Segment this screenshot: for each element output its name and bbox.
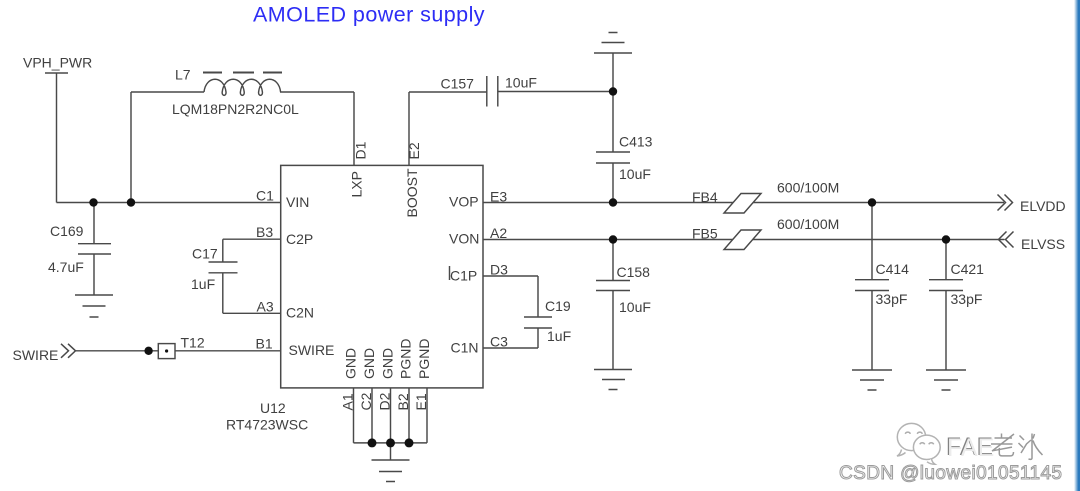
svg-text:C3: C3 [490, 334, 508, 350]
svg-text:C17: C17 [192, 246, 218, 262]
svg-text:33pF: 33pF [951, 291, 983, 307]
svg-text:VOP: VOP [449, 194, 479, 210]
svg-text:AMOLED power supply: AMOLED power supply [253, 3, 485, 27]
svg-text:D2: D2 [377, 392, 393, 410]
svg-text:C1P: C1P [450, 268, 477, 284]
svg-text:C414: C414 [876, 261, 910, 277]
svg-text:C19: C19 [545, 298, 571, 314]
svg-text:E3: E3 [490, 189, 507, 205]
svg-text:C158: C158 [617, 264, 651, 280]
svg-text:FB4: FB4 [692, 189, 718, 205]
svg-text:10uF: 10uF [619, 299, 651, 315]
svg-text:C421: C421 [951, 261, 985, 277]
svg-text:GND: GND [380, 348, 396, 379]
svg-text:U12: U12 [260, 400, 286, 416]
svg-text:SWIRE: SWIRE [289, 342, 335, 358]
svg-text:D1: D1 [353, 141, 369, 159]
svg-text:PGND: PGND [416, 339, 432, 379]
svg-text:B2: B2 [395, 393, 411, 410]
svg-text:PGND: PGND [398, 339, 414, 379]
svg-text:LXP: LXP [349, 171, 365, 197]
svg-text:600/100M: 600/100M [777, 216, 839, 232]
svg-text:GND: GND [361, 348, 377, 379]
svg-text:VIN: VIN [286, 194, 309, 210]
svg-text:A3: A3 [257, 299, 274, 315]
svg-text:C413: C413 [619, 134, 653, 150]
svg-text:T12: T12 [181, 335, 205, 351]
svg-text:10uF: 10uF [619, 166, 651, 182]
svg-text:E1: E1 [413, 393, 429, 410]
svg-text:C2N: C2N [286, 305, 314, 321]
svg-text:D3: D3 [490, 262, 508, 278]
svg-text:SWIRE: SWIRE [13, 347, 59, 363]
svg-text:A1: A1 [340, 393, 356, 410]
svg-text:C2: C2 [358, 392, 374, 410]
svg-text:RT4723WSC: RT4723WSC [226, 417, 308, 433]
svg-text:FB5: FB5 [692, 226, 718, 242]
svg-text:ELVSS: ELVSS [1021, 236, 1065, 252]
svg-text:BOOST: BOOST [404, 168, 420, 217]
svg-text:E2: E2 [406, 142, 422, 159]
svg-text:ELVDD: ELVDD [1020, 198, 1066, 214]
svg-text:B1: B1 [256, 336, 273, 352]
svg-text:C2P: C2P [286, 231, 313, 247]
svg-text:600/100M: 600/100M [777, 180, 839, 196]
svg-text:A2: A2 [490, 225, 507, 241]
svg-text:C157: C157 [441, 76, 475, 92]
svg-text:VON: VON [449, 231, 479, 247]
svg-text:VPH_PWR: VPH_PWR [23, 55, 92, 71]
svg-text:C169: C169 [50, 223, 84, 239]
svg-text:33pF: 33pF [876, 291, 908, 307]
svg-text:C1: C1 [256, 188, 274, 204]
svg-text:LQM18PN2R2NC0L: LQM18PN2R2NC0L [172, 101, 299, 117]
svg-text:GND: GND [343, 348, 359, 379]
svg-text:10uF: 10uF [505, 75, 537, 91]
svg-text:B3: B3 [256, 224, 273, 240]
svg-text:1uF: 1uF [547, 328, 571, 344]
svg-text:1uF: 1uF [191, 276, 215, 292]
svg-text:C1N: C1N [451, 340, 479, 356]
svg-text:4.7uF: 4.7uF [48, 259, 84, 275]
svg-text:L7: L7 [175, 67, 191, 83]
